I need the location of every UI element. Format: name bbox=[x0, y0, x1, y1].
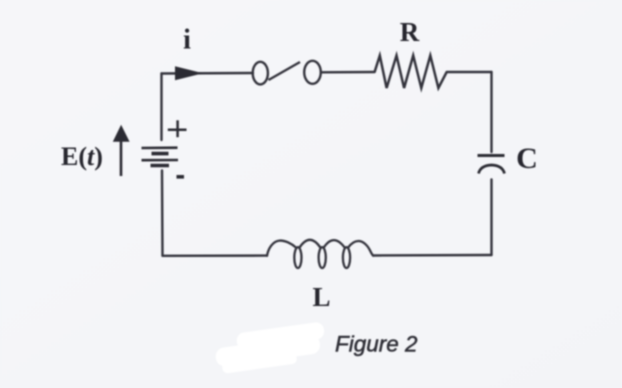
svg-text:Figure 2: Figure 2 bbox=[335, 332, 418, 357]
current arrow i bbox=[175, 66, 203, 80]
svg-text:E(t): E(t) bbox=[61, 142, 103, 171]
svg-text:L: L bbox=[312, 282, 330, 312]
switch S bbox=[253, 61, 321, 85]
wire top-left segment bbox=[162, 72, 254, 75]
wire switch-to-resistor segment bbox=[322, 71, 375, 74]
svg-text:i: i bbox=[183, 25, 191, 56]
wire bottom-left segment bbox=[163, 254, 268, 257]
wire left side lower (battery to corner) bbox=[161, 171, 164, 256]
battery plus sign bbox=[168, 120, 187, 137]
wire right side lower (corner to capacitor) bbox=[490, 180, 492, 256]
capacitor C bbox=[478, 156, 505, 174]
EMF direction arrow bbox=[113, 125, 130, 176]
svg-text:R: R bbox=[400, 17, 420, 47]
wire bottom-right segment bbox=[373, 254, 492, 257]
wire right side upper (capacitor to corner) bbox=[490, 72, 492, 152]
resistor R bbox=[375, 56, 447, 89]
wire top-right segment bbox=[447, 71, 492, 73]
battery E bbox=[142, 148, 179, 166]
wire left side upper (to battery) bbox=[160, 74, 162, 141]
whiteout smudge bbox=[213, 321, 328, 374]
inductor L bbox=[267, 240, 373, 268]
battery minus sign bbox=[177, 175, 185, 179]
svg-text:C: C bbox=[516, 142, 538, 175]
